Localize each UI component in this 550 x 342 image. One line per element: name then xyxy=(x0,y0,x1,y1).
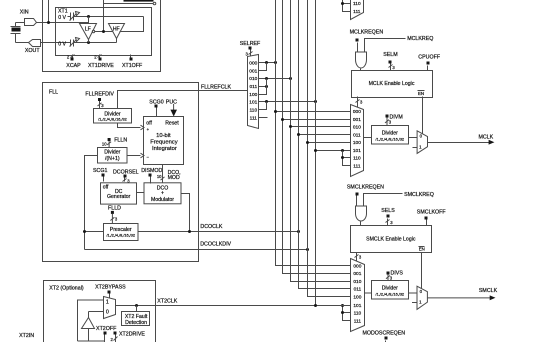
svg-text:MCLK Enable Logic: MCLK Enable Logic xyxy=(369,81,415,87)
divider DIVM xyxy=(372,126,409,145)
divider FLLREFDIV xyxy=(94,109,132,124)
svg-text:Prescaler: Prescaler xyxy=(110,227,132,233)
wire EN to output mux xyxy=(421,253,423,289)
divider /(N+1) xyxy=(98,148,128,164)
node top rail xyxy=(87,15,90,18)
wire row 101 to XT2CLK bus xyxy=(259,101,316,103)
svg-text:XIN: XIN xyxy=(20,10,29,16)
XT1 outer section box (top edge cut off) xyxy=(43,0,161,72)
svg-text:Divider: Divider xyxy=(382,131,398,137)
wire VLOCLK bus L2 xyxy=(283,0,351,274)
svg-text:10: 10 xyxy=(157,174,162,179)
svg-text:XT1DRIVE: XT1DRIVE xyxy=(88,63,114,69)
DCO modulator xyxy=(144,183,181,204)
wire SMCLK out xyxy=(427,297,490,299)
svg-text:XT2DRIVE: XT2DRIVE xyxy=(119,331,145,337)
svg-text:DCOCLKDIV: DCOCLKDIV xyxy=(200,242,231,248)
svg-text:Detection: Detection xyxy=(125,320,147,326)
wire DC gen to DCO xyxy=(137,192,144,194)
amp XT2 xyxy=(82,318,95,329)
svg-text:011: 011 xyxy=(249,84,257,90)
svg-text:110: 110 xyxy=(354,311,362,317)
mux SELM xyxy=(351,105,364,177)
wire SELM 011 from L4 xyxy=(299,134,351,136)
wire DCO output xyxy=(182,194,190,232)
wire SELM 100 from L5 xyxy=(308,142,351,144)
mux SELREF xyxy=(248,55,259,129)
wire select 3 to mux xyxy=(356,97,360,108)
XT1 oscillator box xyxy=(56,8,152,56)
wire row 001 tie xyxy=(259,63,267,71)
svg-text:DIVM: DIVM xyxy=(390,115,403,121)
svg-text:000: 000 xyxy=(353,109,361,115)
amp HF xyxy=(109,24,125,39)
wire SELM 000 from L1 xyxy=(276,111,351,113)
svg-text:010: 010 xyxy=(353,279,361,285)
wire divider to output mux xyxy=(409,137,418,139)
wire MCLK out xyxy=(428,142,490,144)
signal DIVS xyxy=(387,272,390,275)
node osc out xyxy=(102,30,105,33)
signal FLLN xyxy=(108,138,111,141)
wire divider to integrator xyxy=(118,123,141,128)
crystal xyxy=(11,23,29,43)
svg-text:1: 1 xyxy=(106,299,109,305)
svg-text:101: 101 xyxy=(353,303,361,309)
wire SELS 110 111 ties xyxy=(343,306,351,321)
svg-text:CPUOFF: CPUOFF xyxy=(418,55,441,61)
mux MCLK out xyxy=(417,131,427,154)
wire SELM 101 from L6 xyxy=(316,150,351,152)
svg-text:Divider: Divider xyxy=(382,286,398,292)
svg-text:SMCLKOFF: SMCLKOFF xyxy=(417,210,447,216)
wire LF/HF output xyxy=(95,31,113,33)
wire SELM 110 111 ties xyxy=(343,151,351,166)
svg-text:SMCLKREQEN: SMCLKREQEN xyxy=(347,185,384,191)
wire DCOCLKDIV feedback xyxy=(85,156,98,250)
svg-text:101: 101 xyxy=(353,148,361,154)
wire XT1CLK bus L1 xyxy=(276,0,351,266)
svg-text:Reset: Reset xyxy=(165,121,179,127)
wire row 100 tie xyxy=(259,79,267,95)
wire DCOCLK bus L4 xyxy=(299,0,351,289)
wire: vertical to cut-off bypass mux from osc output node xyxy=(103,0,105,32)
svg-text:0 V: 0 V xyxy=(58,41,66,47)
wire row 110 tie xyxy=(343,0,351,12)
svg-text:XT2 (Optional): XT2 (Optional) xyxy=(49,285,84,291)
prescaler xyxy=(104,224,139,241)
svg-text:/(N+1): /(N+1) xyxy=(105,156,120,162)
signal XT1OFF xyxy=(130,55,132,58)
wire prescaler input left xyxy=(85,231,104,233)
svg-text:10-bit: 10-bit xyxy=(156,133,171,139)
wire N+1 divider to integrator xyxy=(127,155,141,157)
svg-text:SELS: SELS xyxy=(381,208,395,214)
svg-text:MCLKREQ: MCLKREQ xyxy=(407,36,433,42)
node fault tap xyxy=(135,304,138,307)
wire row 111 stub xyxy=(259,117,268,119)
wire XT2CLK bus L6 xyxy=(315,0,317,306)
svg-text:+: + xyxy=(161,191,164,197)
svg-text:001: 001 xyxy=(353,117,361,123)
wire: vertical to cut-off bypass mux from XIN node xyxy=(48,0,50,23)
wire XOUT xyxy=(41,42,68,44)
svg-text:SMCLK: SMCLK xyxy=(479,288,498,294)
svg-text:FLLD: FLLD xyxy=(108,205,121,211)
svg-text:0: 0 xyxy=(106,309,109,315)
svg-text:FLLREFDIV: FLLREFDIV xyxy=(85,91,114,97)
mux ACLK (cut off at top) xyxy=(351,0,364,20)
svg-text:LF: LF xyxy=(85,27,91,33)
svg-text:EN: EN xyxy=(419,246,425,251)
node XIN junction xyxy=(47,21,50,24)
wire row 000 to XT1CLK bus xyxy=(259,62,276,64)
node DCOCLKDIV to bus xyxy=(306,248,309,251)
node XT2CLK to bus xyxy=(314,304,317,307)
wire SELM 001 from L2 xyxy=(283,119,351,121)
wire XIN xyxy=(37,23,89,24)
wire mux to divider xyxy=(365,292,372,294)
svg-text:001: 001 xyxy=(353,271,361,277)
wire XT2IN xyxy=(78,340,105,342)
svg-text:Frequency: Frequency xyxy=(150,140,177,146)
FLL box xyxy=(43,83,199,262)
svg-text:SCG1: SCG1 xyxy=(93,168,107,174)
svg-text:HF: HF xyxy=(113,26,120,32)
wire row 011 tie xyxy=(259,86,267,88)
node XOUT rail xyxy=(87,41,90,44)
svg-text:SELREF: SELREF xyxy=(240,41,261,47)
svg-text:FLLREFCLK: FLLREFCLK xyxy=(201,84,231,90)
svg-text:110: 110 xyxy=(353,156,361,162)
svg-text:10: 10 xyxy=(102,142,107,147)
cut-off black bar (top remnant) xyxy=(124,0,154,2)
svg-text:FLLN: FLLN xyxy=(114,137,127,143)
wire amp to mux 0 xyxy=(89,312,104,318)
wire DCOCLKDIV bus L5 xyxy=(308,0,351,297)
wire REFOCLK bus L3 xyxy=(291,0,351,282)
wire HF input loop xyxy=(120,17,144,32)
svg-text:MCLKREQEN: MCLKREQEN xyxy=(350,29,384,35)
svg-text:001: 001 xyxy=(249,68,257,74)
MCLK enable logic box xyxy=(352,71,433,98)
wire 1-input stub xyxy=(413,147,418,149)
svg-text:XT1OFF: XT1OFF xyxy=(122,63,143,69)
mux SELS xyxy=(351,259,365,332)
svg-text:/1,/2,/4,/8,/16,/32: /1,/2,/4,/8,/16,/32 xyxy=(376,292,405,296)
svg-text:XT2BYPASS: XT2BYPASS xyxy=(95,284,126,290)
svg-text:010: 010 xyxy=(249,76,257,82)
wire 1-input stub xyxy=(412,302,417,304)
node DCO out xyxy=(188,230,191,233)
wire DCOCLKDIV xyxy=(85,249,308,251)
svg-text:/1,/2,/4,/8,/16,/32: /1,/2,/4,/8,/16,/32 xyxy=(106,234,135,238)
svg-text:off: off xyxy=(146,121,152,127)
wire DCOCLK xyxy=(138,231,299,233)
svg-text:EN: EN xyxy=(418,91,424,96)
svg-text:SMCLKREQ: SMCLKREQ xyxy=(404,192,434,198)
svg-text:100: 100 xyxy=(249,92,257,98)
SMCLK enable logic box xyxy=(351,226,432,253)
gate AND U2 xyxy=(356,52,367,68)
DC generator xyxy=(101,183,137,204)
svg-text:off: off xyxy=(103,185,109,191)
svg-text:011: 011 xyxy=(353,132,361,138)
svg-text:111: 111 xyxy=(354,319,362,325)
svg-text:MCLK: MCLK xyxy=(478,134,493,140)
cut-off fault line with bubble xyxy=(104,3,154,5)
svg-text:Generator: Generator xyxy=(107,194,131,200)
svg-text:100: 100 xyxy=(353,295,361,301)
svg-text:XT2CLK: XT2CLK xyxy=(157,299,177,305)
svg-text:110: 110 xyxy=(353,1,361,7)
wire XT2CLK xyxy=(116,305,351,307)
svg-text:PUC: PUC xyxy=(166,99,177,105)
signal XCAP xyxy=(71,55,75,58)
svg-text:110: 110 xyxy=(249,108,257,114)
svg-text:XT1: XT1 xyxy=(58,8,68,14)
svg-text:XCAP: XCAP xyxy=(66,63,81,69)
node tie xyxy=(341,2,344,5)
svg-text:Modulator: Modulator xyxy=(151,197,174,203)
svg-text:XT2OFF: XT2OFF xyxy=(96,326,117,332)
node feedback tap xyxy=(83,230,86,233)
signal DIVM xyxy=(386,115,389,118)
wire divider to output mux xyxy=(409,292,418,294)
signal XT1DRIVE xyxy=(98,55,102,58)
10-bit frequency integrator U1 xyxy=(144,117,184,165)
svg-text:000: 000 xyxy=(249,61,257,67)
svg-text:000: 000 xyxy=(353,264,361,270)
wire DCO MOD 10-bit xyxy=(161,165,165,183)
svg-text:Divider: Divider xyxy=(104,150,120,156)
svg-text:010: 010 xyxy=(353,125,361,131)
svg-text:XOUT: XOUT xyxy=(25,48,40,54)
amp LF xyxy=(80,24,97,40)
svg-text:111: 111 xyxy=(250,115,258,121)
svg-text:100: 100 xyxy=(353,140,361,146)
svg-text:Divider: Divider xyxy=(104,111,120,117)
mux SMCLK out xyxy=(417,286,427,309)
svg-text:FLL: FLL xyxy=(49,90,58,96)
wire SELM 010 from L3 xyxy=(291,126,351,128)
gate AND U3 xyxy=(356,206,367,221)
signal XT2DRIVE xyxy=(114,332,117,335)
svg-text:MODOSCREQEN: MODOSCREQEN xyxy=(362,331,405,337)
XT2 section box (bottom cut off) xyxy=(44,281,156,342)
wire row 110 tie xyxy=(259,102,267,110)
svg-text:Integrator: Integrator xyxy=(152,146,177,152)
svg-text:DIVS: DIVS xyxy=(391,271,404,277)
wire bypass input from XT2IN xyxy=(78,300,104,341)
svg-text:/1,/2,/4,/8,/16,/32: /1,/2,/4,/8,/16,/32 xyxy=(376,137,405,141)
svg-text:111: 111 xyxy=(353,9,361,15)
wire EN to output mux xyxy=(422,97,424,134)
svg-text:SMCLK Enable Logic: SMCLK Enable Logic xyxy=(366,237,416,243)
svg-text:0 V: 0 V xyxy=(58,15,66,21)
node DCOCLK to bus xyxy=(297,230,300,233)
svg-text:SELM: SELM xyxy=(383,52,397,58)
svg-text:111: 111 xyxy=(353,163,361,169)
wire FLLREFCLK xyxy=(118,91,248,109)
mux XT2 bypass xyxy=(104,297,116,319)
divider DIVS xyxy=(372,281,409,300)
svg-text:DCOCLK: DCOCLK xyxy=(200,224,223,230)
svg-text:XT2IN: XT2IN xyxy=(19,333,34,339)
svg-text:011: 011 xyxy=(354,287,362,293)
wire row 010 to REFOCLK bus xyxy=(259,78,291,80)
svg-text:MOD: MOD xyxy=(168,175,180,181)
wire select 3 to mux xyxy=(355,253,359,262)
svg-text:/1,/2,/4,/8,/16,/32: /1,/2,/4,/8,/16,/32 xyxy=(98,118,127,122)
XT2 fault detection box xyxy=(136,306,138,312)
svg-text:101: 101 xyxy=(249,100,257,106)
wire mux to divider xyxy=(364,137,372,139)
